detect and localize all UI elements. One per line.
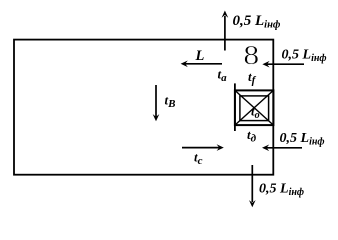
wire: recirculation arrow t_c shaft	[182, 147, 220, 149]
wire: room air arrow t_B shaft	[155, 85, 157, 117]
heater unit diagonal 1	[235, 90, 274, 125]
arrowhead: right lower infiltration (left)	[262, 145, 269, 152]
wire: right upper infiltration arrow shaft	[267, 63, 305, 65]
svg-text:L: L	[195, 48, 205, 64]
wire: supply arrow L shaft	[185, 63, 223, 65]
room outline	[14, 40, 273, 175]
arrowhead: recirculation t_c (right)	[217, 144, 224, 151]
wire: right lower infiltration arrow shaft	[266, 147, 302, 149]
wire: top exfiltration arrow shaft	[224, 16, 226, 51]
heater unit outer box	[235, 90, 274, 125]
arrowhead: right upper infiltration (left)	[262, 61, 269, 68]
svg-text:8: 8	[243, 41, 259, 70]
arrowhead: bottom exfiltration (down)	[249, 200, 256, 207]
heater unit diagonal 2	[235, 90, 274, 125]
wire: bottom exfiltration arrow shaft	[251, 165, 253, 202]
heater duct left wall	[234, 83, 236, 131]
arrowhead: room air t_B (down)	[153, 114, 160, 121]
arrowhead: supply L (left)	[181, 61, 188, 68]
heater unit inner box	[240, 96, 269, 121]
arrowhead: top exfiltration	[222, 11, 229, 18]
